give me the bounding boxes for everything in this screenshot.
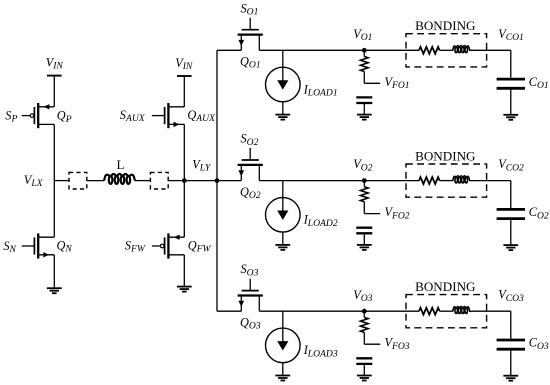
current source ILOAD1: [266, 67, 301, 102]
svg-text:ILOAD3: ILOAD3: [303, 343, 338, 359]
svg-text:SP: SP: [5, 108, 17, 124]
wire: VLX vertical to QN drain: [53, 181, 55, 238]
svg-text:ILOAD2: ILOAD2: [303, 213, 338, 229]
label QO2: [240, 185, 261, 201]
svg-text:CO2: CO2: [529, 205, 549, 221]
wire: current source to ground: [282, 232, 284, 245]
wire: node VLY down to QFW drain: [183, 181, 185, 238]
wire: bonding L to VCO2: [469, 180, 511, 182]
BONDING label (branch 2): [415, 148, 476, 163]
gate label SO1: [241, 1, 259, 17]
svg-text:VLY: VLY: [192, 157, 212, 173]
node label VLY: [192, 157, 212, 173]
gate label SFW: [125, 238, 146, 254]
ground (QFW source): [177, 287, 192, 292]
wire: QO2 drain to VO2 rail: [259, 180, 364, 182]
svg-text:QO3: QO3: [240, 315, 261, 331]
ground (feedback divider 1): [357, 115, 372, 120]
svg-text:QO2: QO2: [240, 185, 261, 201]
ground (ILOAD2): [275, 245, 290, 250]
wire: VCO3 down to output cap: [510, 311, 512, 338]
wire: output cap to ground: [510, 219, 512, 246]
wire: feedback cap to ground: [363, 233, 365, 245]
svg-text:VO1: VO1: [353, 27, 372, 43]
net label VO3: [353, 288, 372, 304]
wire: VO3 rail into bonding network: [364, 310, 419, 312]
ground (feedback divider 2): [357, 245, 372, 250]
label ILOAD3: [303, 343, 338, 359]
feedback resistor (branch 2): [361, 181, 369, 214]
svg-text:QAUX: QAUX: [187, 108, 216, 124]
svg-text:QN: QN: [57, 238, 73, 254]
label QFW: [188, 238, 212, 254]
svg-text:VFO2: VFO2: [385, 205, 410, 221]
wire: bonding R to bonding L: [440, 180, 454, 182]
wire: VO2 rail into bonding network: [364, 180, 419, 182]
wire: VCO2 down to output cap: [510, 181, 512, 208]
inductor L: [104, 174, 135, 184]
svg-text:CO1: CO1: [529, 75, 549, 91]
bonding box (branch 2): [406, 164, 487, 197]
net label VIN (left): [46, 55, 64, 71]
label CO3: [529, 336, 549, 352]
wire: pad to inductor L: [87, 180, 104, 182]
output capacitor CO2: [497, 209, 525, 218]
net label VCO3: [498, 288, 524, 304]
svg-text:VO2: VO2: [353, 157, 372, 173]
ground (CO3): [503, 376, 518, 381]
transistor QFW (PMOS): [152, 233, 184, 258]
wire: QAUX source down to node VLY: [183, 124, 185, 180]
bond pad box (right of L): [150, 172, 168, 189]
wire: QFW source to ground: [183, 255, 185, 287]
ground (CO1): [503, 115, 518, 120]
svg-text:VIN: VIN: [175, 56, 193, 72]
BONDING label (branch 1): [415, 18, 476, 33]
gate label SN: [3, 239, 16, 255]
wire: bus to QO2 source: [217, 180, 241, 182]
wire: inductor L to pad: [135, 180, 151, 182]
net label VFO2: [385, 205, 410, 221]
bonding wire resistance (branch 3): [419, 308, 440, 315]
svg-text:QP: QP: [57, 109, 72, 125]
junction: bus / branch 2: [215, 178, 220, 183]
transistor QAUX (NMOS): [152, 103, 184, 128]
svg-text:VCO1: VCO1: [498, 27, 524, 43]
label QAUX: [187, 108, 216, 124]
transistor QO3 (NMOS switch): [238, 279, 263, 312]
bonding wire resistance (branch 1): [419, 47, 440, 54]
wire: current source to ground: [282, 363, 284, 376]
wire: load tap to current source: [282, 181, 284, 198]
svg-text:L: L: [117, 157, 125, 172]
wire: VIN bar to QAUX drain: [183, 76, 185, 107]
junction node VLY: [182, 178, 187, 183]
bonding wire resistance (branch 2): [419, 177, 440, 184]
wire: QN source to ground: [53, 255, 55, 288]
power supply bar VIN (middle): [177, 75, 192, 77]
node VFO3 tap wire: [364, 343, 380, 345]
wire: output cap to ground: [510, 88, 512, 115]
ground (feedback divider 3): [357, 376, 372, 381]
BONDING label (branch 3): [415, 279, 476, 294]
net label VO1: [353, 27, 372, 43]
wire: current source to ground: [282, 102, 284, 115]
wire: load tap to current source: [282, 311, 284, 328]
ground (CO2): [503, 245, 518, 250]
transistor QN (NMOS): [22, 233, 54, 258]
net label VFO1: [385, 75, 410, 91]
ground (ILOAD1): [275, 115, 290, 120]
output capacitor CO3: [497, 340, 525, 349]
wire: VO1 rail into bonding network: [364, 49, 419, 51]
net label VFO3: [385, 336, 410, 352]
wire: bus to QO1 source: [217, 49, 241, 51]
label ILOAD1: [303, 82, 338, 98]
gate label SO3: [241, 262, 259, 278]
feedback capacitor (branch 1): [356, 97, 372, 103]
label QP: [57, 109, 72, 125]
node VFO2 tap wire: [364, 213, 380, 215]
net label VCO1: [498, 27, 524, 43]
node label VLX: [24, 173, 44, 189]
svg-text:ILOAD1: ILOAD1: [303, 82, 338, 98]
wire: VLY to output bus: [184, 180, 217, 182]
svg-text:VFO1: VFO1: [385, 75, 410, 91]
label CO2: [529, 205, 549, 221]
gate label SO2: [241, 132, 259, 148]
svg-text:BONDING: BONDING: [415, 279, 476, 294]
transistor QO1 (NMOS switch): [238, 18, 263, 51]
output capacitor CO1: [497, 79, 525, 88]
svg-text:VFO3: VFO3: [385, 336, 410, 352]
svg-text:VIN: VIN: [46, 55, 64, 71]
svg-text:BONDING: BONDING: [415, 148, 476, 163]
wire: feedback cap to ground: [363, 103, 365, 115]
svg-text:SAUX: SAUX: [120, 108, 146, 124]
bond pad box (left of L): [69, 172, 87, 189]
transistor QP (PMOS): [22, 103, 54, 128]
svg-text:QFW: QFW: [188, 238, 212, 254]
svg-text:SO2: SO2: [241, 132, 259, 148]
label QO3: [240, 315, 261, 331]
wire: QO1 drain to VO1 rail: [259, 49, 364, 51]
gate label SAUX: [120, 108, 146, 124]
net label VCO2: [498, 157, 524, 173]
wire: bus to QO3 source: [217, 310, 241, 312]
wire: load tap to current source: [282, 50, 284, 67]
wire: QO3 drain to VO3 rail: [259, 310, 364, 312]
junction: VO1 rail / feedback divider: [362, 48, 367, 53]
svg-text:SN: SN: [3, 239, 16, 255]
label ILOAD2: [303, 213, 338, 229]
svg-text:CO3: CO3: [529, 336, 549, 352]
inductor L value label: [117, 157, 125, 172]
svg-text:QO1: QO1: [240, 55, 261, 71]
label CO1: [529, 75, 549, 91]
label QN: [57, 238, 73, 254]
net label VO2: [353, 157, 372, 173]
svg-text:SO1: SO1: [241, 1, 259, 17]
wire: pad to node VLY: [168, 180, 184, 182]
svg-text:SO3: SO3: [241, 262, 259, 278]
node VFO1 tap wire: [364, 82, 380, 84]
wire: VCO1 down to output cap: [510, 50, 512, 77]
net label VIN (middle): [175, 56, 193, 72]
feedback capacitor (branch 3): [356, 358, 372, 364]
bonding wire inductance (branch 1): [453, 46, 470, 53]
wire: output bus vertical: [216, 50, 218, 311]
bonding box (branch 3): [406, 295, 487, 328]
bonding wire inductance (branch 3): [453, 306, 470, 313]
junction: VO3 rail / feedback divider: [362, 309, 367, 314]
junction: VO2 rail / feedback divider: [362, 178, 367, 183]
power supply bar VIN (left): [47, 75, 62, 77]
gate label SP: [5, 108, 17, 124]
wire: bonding R to bonding L: [440, 49, 454, 51]
svg-text:VO3: VO3: [353, 288, 372, 304]
wire: output cap to ground: [510, 349, 512, 376]
feedback capacitor (branch 2): [356, 228, 372, 234]
wire: bonding R to bonding L: [440, 310, 454, 312]
svg-text:SFW: SFW: [125, 238, 146, 254]
current source ILOAD3: [266, 328, 301, 363]
svg-text:VLX: VLX: [24, 173, 44, 189]
svg-text:VCO3: VCO3: [498, 288, 524, 304]
svg-text:BONDING: BONDING: [415, 18, 476, 33]
ground (QN source): [47, 288, 62, 293]
bonding box (branch 1): [406, 34, 487, 67]
feedback resistor (branch 1): [361, 50, 369, 83]
feedback resistor (branch 3): [361, 311, 369, 344]
wire: bonding L to VCO3: [469, 310, 511, 312]
bonding wire inductance (branch 2): [453, 176, 470, 183]
transistor QO2 (NMOS switch): [238, 148, 263, 181]
wire: feedback cap to ground: [363, 364, 365, 376]
wire: VLX to bond pad: [54, 180, 69, 182]
label QO1: [240, 55, 261, 71]
wire: bonding L to VCO1: [469, 49, 511, 51]
wire: QP drain to node VLX: [53, 124, 55, 180]
ground (ILOAD3): [275, 376, 290, 381]
current source ILOAD2: [266, 198, 301, 233]
svg-text:VCO2: VCO2: [498, 157, 524, 173]
wire: VIN bar to QP source: [53, 76, 55, 107]
